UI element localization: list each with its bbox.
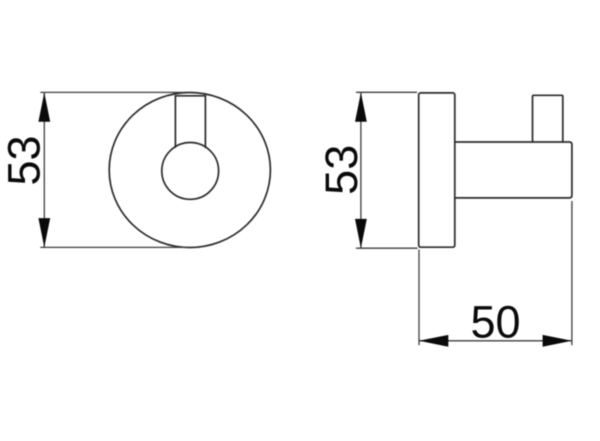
svg-text:53: 53	[316, 145, 367, 195]
svg-text:50: 50	[470, 297, 520, 348]
front view hook post slot	[175, 96, 205, 148]
front view outer circle (wall plate, dia 53)	[109, 93, 270, 248]
svg-text:53: 53	[0, 135, 50, 185]
extension line right (50)	[571, 201, 573, 345]
dimension line (side 53)	[360, 93, 362, 249]
side view wall plate	[419, 93, 455, 247]
front view boss circle	[162, 143, 219, 200]
arrowhead down (front 53 bottom)	[38, 218, 50, 247]
side view boss arm	[455, 142, 572, 198]
arrowhead right (50)	[543, 335, 572, 347]
extension line top (side 53)	[356, 91, 417, 93]
arrowhead up (front 53 top)	[38, 93, 50, 122]
arrowhead down (side 53 bottom)	[355, 219, 367, 248]
side view hook post	[533, 95, 563, 142]
arrowhead left (50)	[419, 335, 448, 347]
extension line bottom (front 53)	[40, 246, 190, 248]
extension line left (50)	[418, 250, 420, 346]
extension line top (front 53)	[40, 91, 190, 93]
dimension line (front 53)	[43, 93, 45, 248]
arrowhead up (side 53 top)	[355, 93, 367, 122]
extension line bottom (side 53)	[356, 247, 418, 249]
dimension line (50)	[419, 340, 572, 342]
